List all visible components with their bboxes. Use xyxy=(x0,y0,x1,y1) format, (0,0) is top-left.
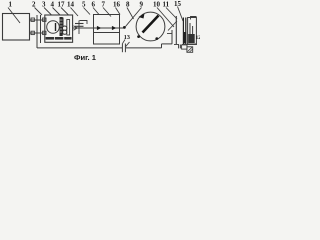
svg-text:5: 5 xyxy=(82,0,86,8)
svg-text:17: 17 xyxy=(58,0,66,8)
svg-text:1: 1 xyxy=(9,0,13,8)
svg-text:15: 15 xyxy=(174,0,182,8)
svg-text:14: 14 xyxy=(67,0,75,8)
svg-text:Фиг. 1: Фиг. 1 xyxy=(74,53,97,62)
svg-text:7: 7 xyxy=(102,0,106,8)
svg-text:11: 11 xyxy=(163,0,170,8)
svg-text:8: 8 xyxy=(126,0,130,8)
svg-text:3: 3 xyxy=(42,0,46,8)
svg-text:6: 6 xyxy=(92,0,96,8)
svg-text:12: 12 xyxy=(196,35,201,41)
svg-text:9: 9 xyxy=(140,0,144,8)
svg-text:13: 13 xyxy=(124,34,130,41)
svg-text:2: 2 xyxy=(32,0,36,8)
svg-text:10: 10 xyxy=(153,0,161,8)
svg-text:16: 16 xyxy=(113,0,121,8)
svg-text:4: 4 xyxy=(51,0,55,8)
